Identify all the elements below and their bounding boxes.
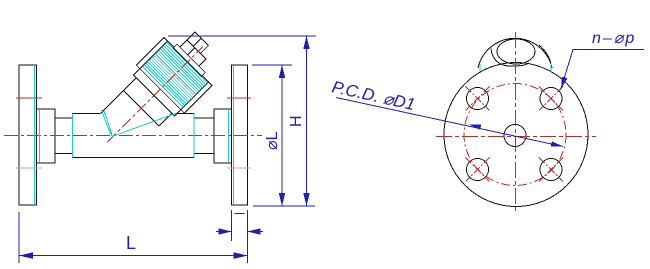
right neck: [194, 118, 214, 154]
bolt line upper right flange: [227, 97, 251, 99]
cap tip: [187, 32, 209, 54]
bolt line upper left flange: [16, 97, 42, 99]
L arrows: [19, 252, 33, 259]
screen band: [136, 38, 212, 114]
L right extension line: [247, 210, 249, 263]
bolt hole upper left: [467, 88, 489, 110]
n-P leader line: [561, 50, 645, 91]
bottom extension line: [253, 205, 315, 207]
right flange face: [233, 66, 235, 204]
branch neck edges: [101, 78, 172, 149]
flange disc: [444, 63, 588, 207]
screen outline right: [112, 113, 177, 137]
flange thickness extension line: [231, 210, 233, 241]
svg-text:⌀L: ⌀L: [264, 131, 281, 150]
left neck: [55, 118, 73, 154]
svg-text:L: L: [126, 233, 136, 253]
left flange face: [34, 66, 36, 204]
screen band inner lines: [140, 41, 168, 69]
right hub face: [228, 110, 230, 162]
left hub face: [39, 110, 41, 162]
branch joint line: [124, 91, 159, 126]
right flange: [232, 65, 248, 205]
H dimension line: [306, 36, 308, 206]
thickness dimension tails: [216, 231, 232, 233]
H arrows: [303, 36, 309, 49]
right body weld: [193, 114, 195, 158]
screen band spring hatch: [143, 43, 208, 108]
branch centerline: [107, 47, 202, 142]
cap plug: [180, 40, 206, 66]
left flange: [19, 65, 37, 205]
gasket faces and welds (cyan): [35, 66, 234, 204]
PCD arrow right: [551, 141, 563, 147]
Y-branch at 45 degrees: [83, 19, 230, 166]
right hub: [214, 109, 232, 163]
screen outline left: [102, 110, 113, 137]
flange diameter dimension line: [281, 65, 283, 206]
PCD arrow left: [469, 124, 481, 130]
bolt hole upper right: [540, 88, 562, 110]
main centerline: [4, 135, 262, 137]
bolt line lower left flange: [16, 167, 42, 169]
horizontal centerline right view: [436, 136, 596, 138]
body: [73, 114, 195, 158]
svg-text:n–⌀p: n–⌀p: [592, 30, 636, 47]
branch neck fill: [97, 78, 172, 153]
bolt hole lower right: [540, 159, 562, 181]
vertical centerline right view: [515, 32, 517, 214]
PCD leader line: [336, 98, 563, 147]
bolt hole centermarks: [466, 87, 564, 182]
n-P arrow: [561, 77, 567, 89]
L dimension line: [19, 255, 248, 257]
thickness arrows: [219, 228, 232, 234]
thickness text dash: [235, 213, 245, 215]
bolt hole lower left: [467, 159, 489, 181]
cap washer: [173, 44, 205, 76]
cap weld marks: [480, 63, 551, 72]
L left extension line: [18, 212, 20, 263]
bolt circle: [464, 84, 566, 186]
flange diameter arrows: [279, 65, 285, 78]
flange diameter top extension line: [252, 64, 292, 66]
H top extension line: [168, 35, 316, 37]
svg-text:H: H: [288, 115, 305, 127]
branch collar: [134, 69, 181, 116]
left hub: [37, 109, 56, 163]
bolt line lower right flange: [227, 167, 251, 169]
left body weld: [72, 114, 74, 158]
center bore: [504, 125, 526, 147]
branch cap projection: [478, 38, 552, 68]
